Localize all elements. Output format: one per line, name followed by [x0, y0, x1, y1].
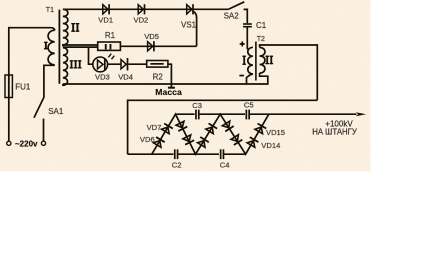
winding label II of T2 — [265, 56, 273, 65]
resistor R2 inner dash — [150, 63, 163, 65]
SA2 right contact — [244, 9, 248, 23]
switch SA2 lever — [228, 2, 244, 10]
wire: R1 line from T1 to thyristor gate node — [63, 45, 197, 47]
resistor R1 inner bars — [105, 44, 112, 49]
transformer T2 secondary winding — [260, 47, 265, 73]
wire: multiplier top rail with C3 C5 — [176, 113, 357, 115]
wire: C1 to T2 primary — [247, 27, 248, 49]
terminal circle right — [41, 141, 45, 145]
LED VD3 circle — [93, 57, 108, 72]
terminal circle left — [7, 141, 11, 145]
transformer T1 core — [58, 10, 60, 84]
diode VD5 — [148, 41, 154, 51]
wire: left mains leg up from terminal through fuse to T1 primary top — [9, 28, 55, 142]
wire: right mains leg from terminal up to switch — [43, 119, 45, 142]
wire: T2 secondary top to multiplier box right — [260, 45, 318, 100]
wire: T2 secondary bottom step to ground line — [247, 73, 268, 84]
diode VD8 — [176, 121, 188, 131]
capacitor C4 plates — [220, 149, 225, 159]
transformer T1 winding III — [63, 48, 68, 86]
diode VD6 — [153, 137, 165, 148]
diode VD11 — [205, 123, 217, 134]
resistor R1 body — [98, 42, 121, 50]
wire: ground line from T1 winding III to T2 bottom — [63, 83, 247, 85]
diode VD2 — [138, 4, 144, 14]
transformer T1 primary winding — [48, 30, 55, 65]
wire: gate vertical and VS1 gate curve — [193, 11, 197, 46]
thyristor VS1 — [187, 4, 193, 14]
plus sign at T2 primary — [240, 41, 245, 46]
winding label I of T1 — [44, 42, 48, 50]
ground bar Масса — [168, 87, 175, 89]
LED VD3 inner diode — [98, 58, 105, 71]
transformer T2 primary winding — [248, 47, 253, 74]
diode VD9 — [182, 135, 194, 145]
paper background — [0, 0, 371, 172]
diode VD1 — [103, 4, 109, 14]
winding label III of T1 — [70, 60, 82, 68]
diode VD14 — [247, 137, 259, 147]
wire: LED line segments VD3-VD4-R2 — [108, 63, 147, 65]
diode VD15 — [254, 124, 266, 134]
diode VD12 — [222, 121, 234, 132]
transformer T2 core — [255, 42, 257, 81]
wire: multiplier box top line — [128, 100, 318, 154]
wire: SA1 top to T1 primary bottom — [44, 65, 55, 97]
fuse inner wire — [8, 75, 10, 98]
diode VD4 — [121, 58, 128, 70]
wire: branch down to LED line — [89, 47, 93, 64]
winding label II of T1 — [71, 23, 79, 32]
LED VD3 emission arrows — [108, 54, 114, 60]
capacitor C2 plates — [174, 149, 179, 159]
diode VD10 — [197, 137, 209, 148]
switch SA1 lever — [34, 97, 44, 118]
arrowhead +100kV output — [356, 112, 366, 116]
wire: T2 primary bottom elbow to ground line — [247, 74, 253, 84]
capacitor C5 plates — [246, 110, 251, 120]
zigzag diode chain — [152, 114, 269, 154]
transformer T1 winding II — [63, 9, 68, 46]
fuse FU1 body — [5, 75, 12, 98]
wire: multiplier bottom rail with C2 C4 — [128, 153, 246, 155]
resistor R2 body — [147, 61, 168, 68]
winding label I of T2 — [242, 56, 246, 65]
diode VD13 — [230, 134, 242, 145]
capacitor C1 plates — [243, 23, 252, 27]
wire: top line from T1 winding II to SA2 — [63, 8, 228, 10]
capacitor C3 plates — [195, 110, 199, 120]
diode VD7 — [161, 123, 173, 134]
wire: R2 out to ground drop — [168, 64, 172, 87]
minus sign at T2 primary — [239, 75, 244, 77]
